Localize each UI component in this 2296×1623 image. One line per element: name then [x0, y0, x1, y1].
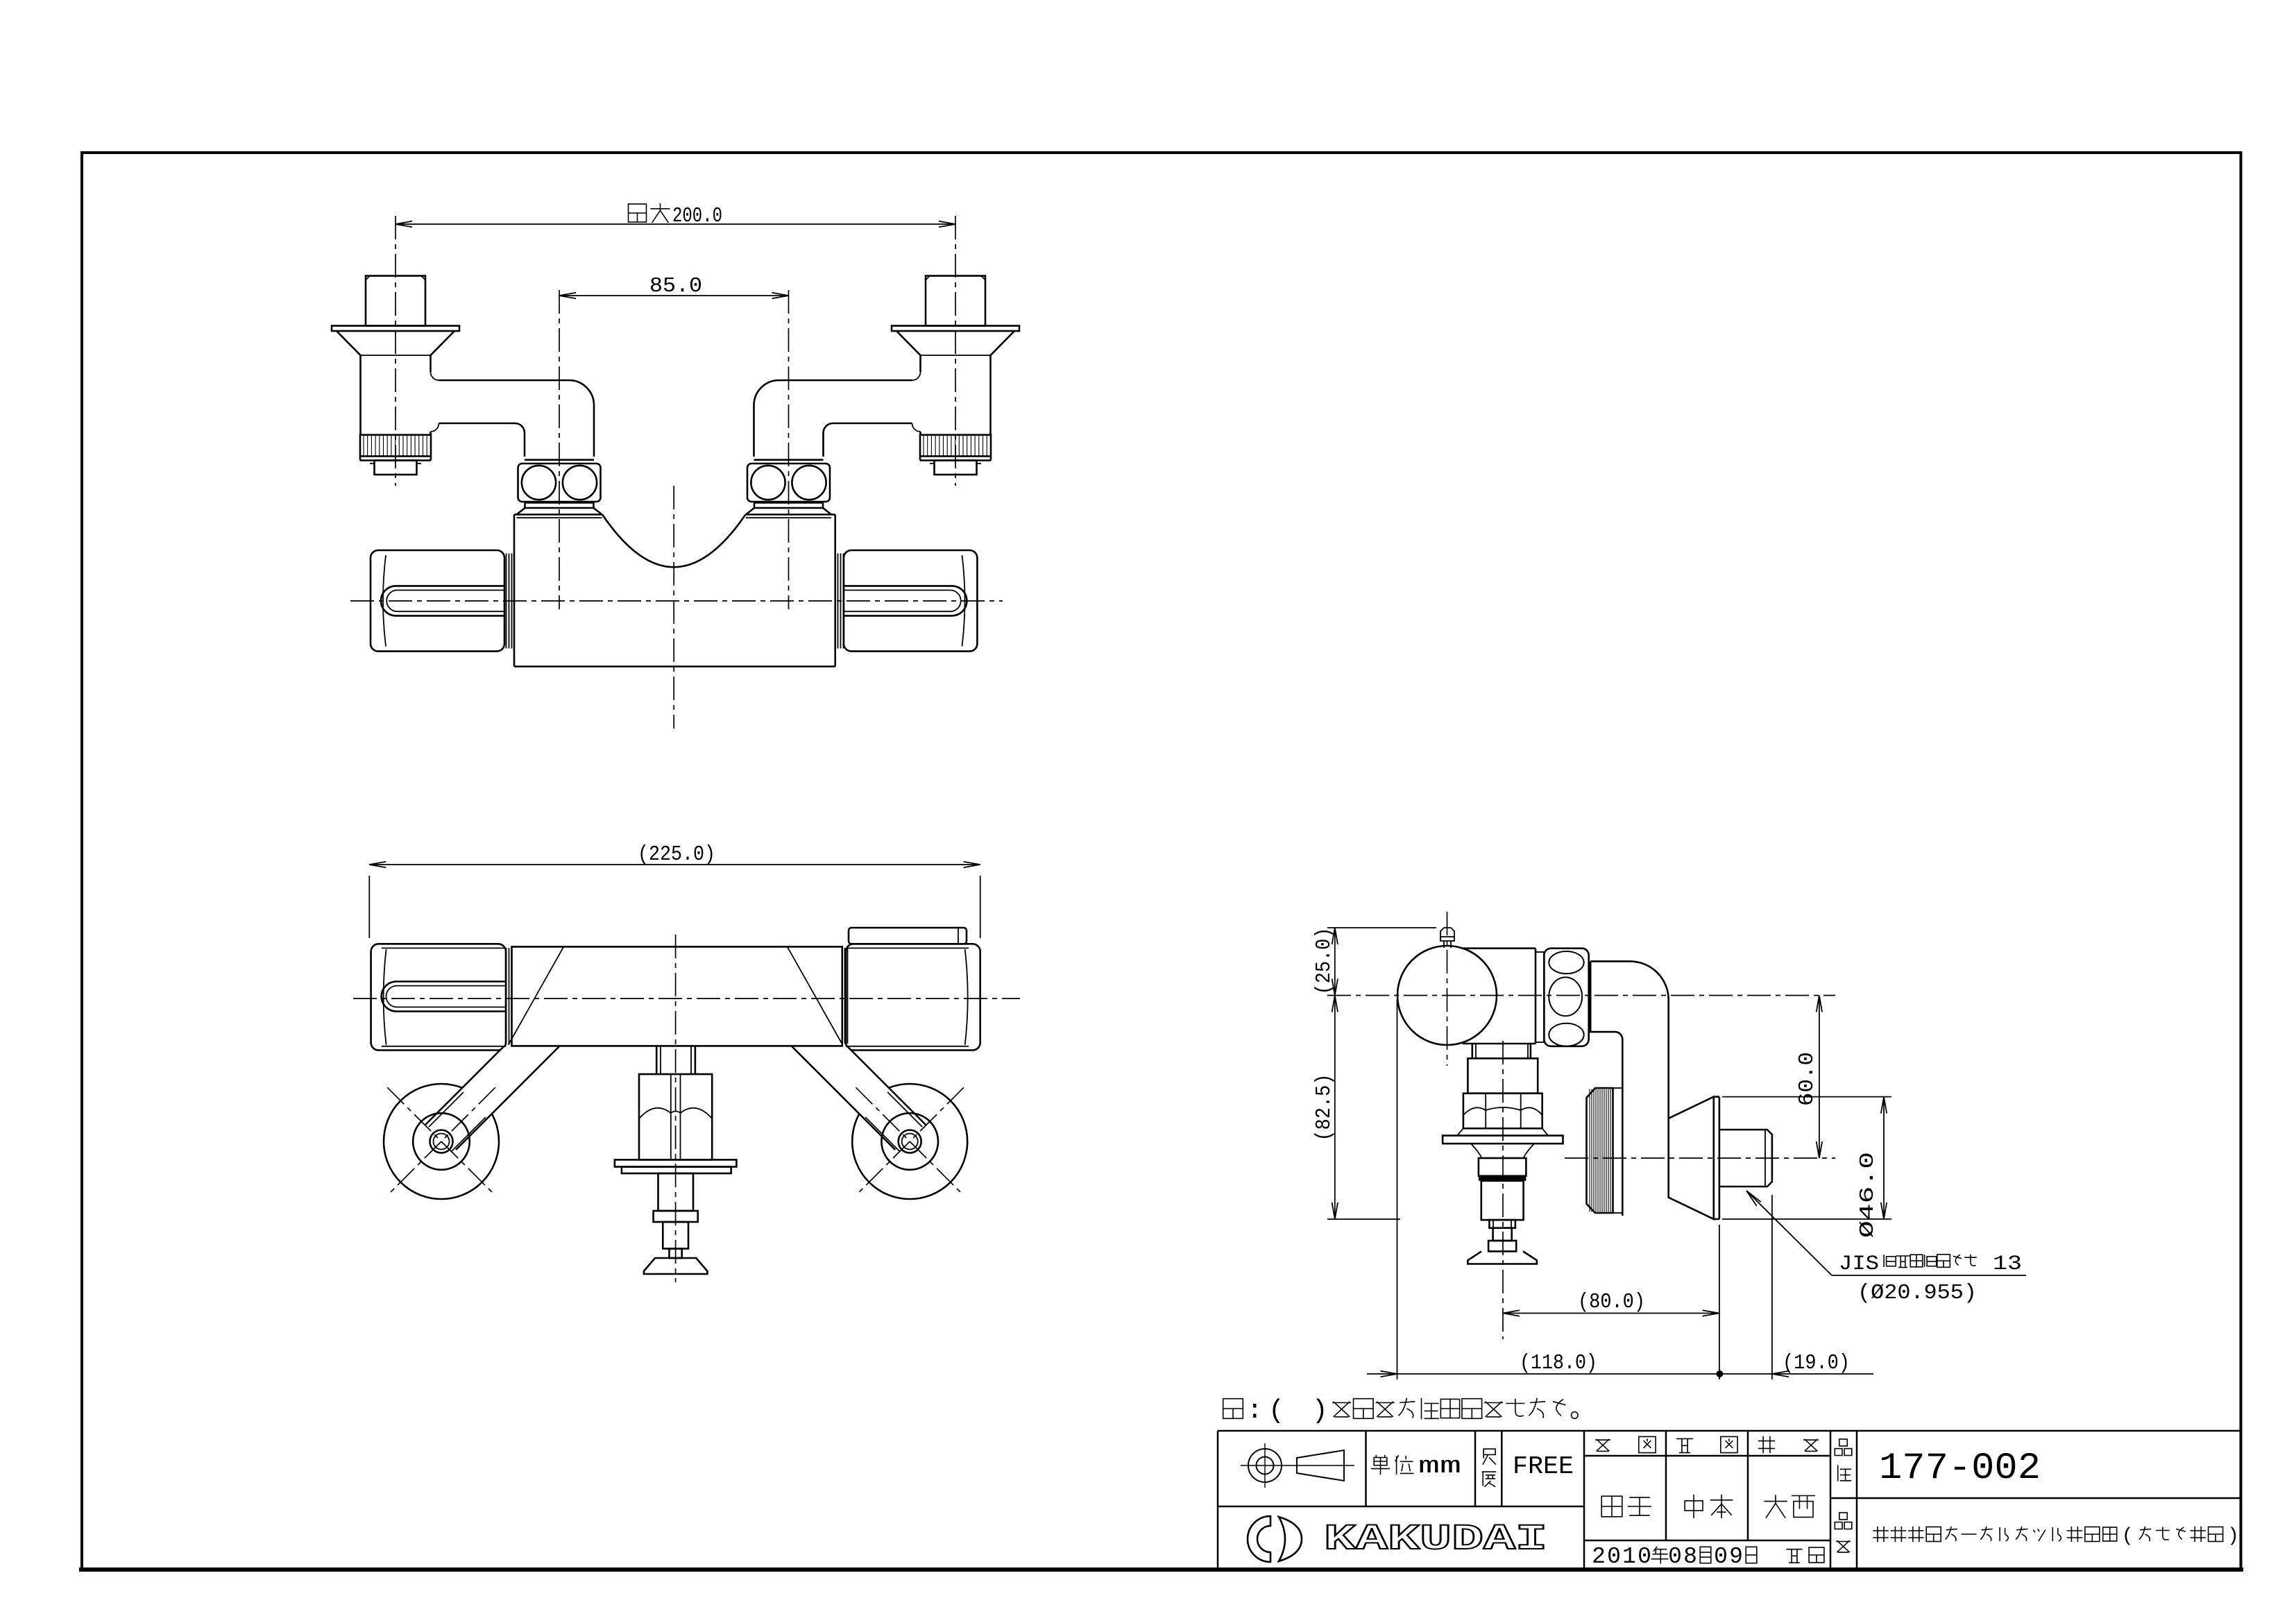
svg-text:JIS: JIS [1839, 1252, 1879, 1276]
svg-text:1: 1 [1622, 1544, 1636, 1570]
svg-text:0: 0 [1638, 1544, 1651, 1570]
svg-text:85.0: 85.0 [649, 274, 702, 298]
svg-text:(82.5): (82.5) [1312, 1074, 1336, 1141]
svg-text:177-002: 177-002 [1879, 1447, 2041, 1490]
svg-text:(225.0): (225.0) [638, 842, 715, 867]
svg-text:(80.0): (80.0) [1578, 1290, 1645, 1314]
svg-text:2: 2 [1592, 1544, 1606, 1570]
svg-text:KAKUDAI: KAKUDAI [1324, 1519, 1547, 1560]
svg-text:): ) [2227, 1526, 2239, 1547]
svg-text:(25.0): (25.0) [1312, 928, 1336, 995]
svg-text:(: ( [1268, 1396, 1284, 1426]
svg-text:0: 0 [1607, 1544, 1621, 1570]
svg-text:8: 8 [1683, 1544, 1697, 1570]
svg-text:0: 0 [1714, 1544, 1728, 1570]
svg-text:FREE: FREE [1513, 1452, 1574, 1481]
svg-text:9: 9 [1729, 1544, 1743, 1570]
svg-text:Ø46.0: Ø46.0 [1856, 1152, 1879, 1238]
svg-text:13: 13 [1993, 1252, 2022, 1276]
svg-text:): ) [1312, 1396, 1328, 1426]
svg-text:(: ( [2122, 1526, 2134, 1547]
svg-text:60.0: 60.0 [1795, 1052, 1819, 1106]
svg-text:(118.0): (118.0) [1520, 1351, 1597, 1375]
svg-text:(19.0): (19.0) [1783, 1351, 1850, 1375]
svg-text:mm: mm [1418, 1454, 1461, 1480]
svg-text:200.0: 200.0 [672, 204, 722, 228]
svg-text:(Ø20.955): (Ø20.955) [1857, 1281, 1977, 1305]
svg-text:0: 0 [1668, 1544, 1682, 1570]
svg-text::: : [1247, 1396, 1263, 1426]
